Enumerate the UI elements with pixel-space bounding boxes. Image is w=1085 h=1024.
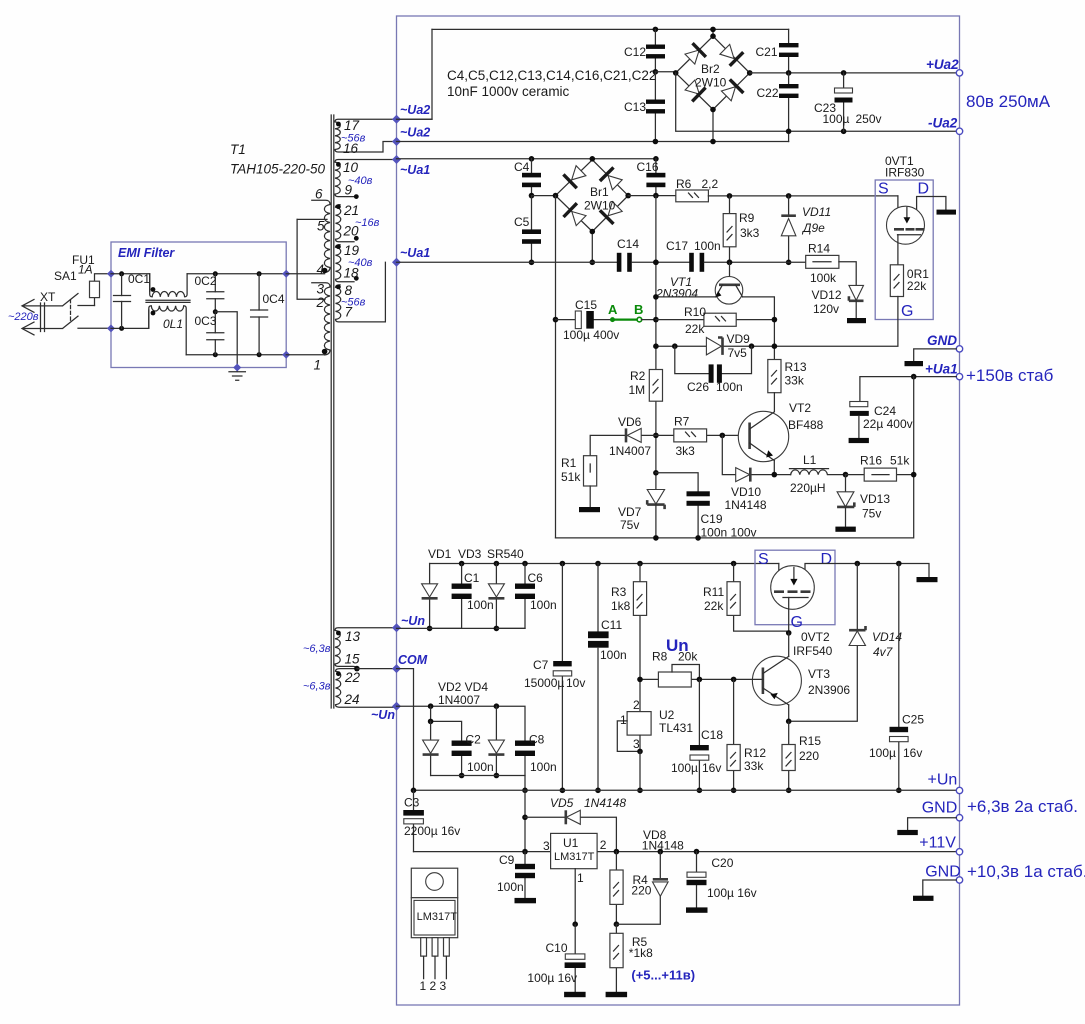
output GND 150v — [956, 346, 962, 352]
svg-text:~6,3в: ~6,3в — [303, 643, 331, 655]
svg-text:D: D — [918, 181, 930, 198]
svg-text:2N3904: 2N3904 — [655, 287, 698, 301]
svg-text:+6,3в 2а стаб.: +6,3в 2а стаб. — [967, 797, 1078, 816]
Br2 diode top-right — [720, 44, 734, 58]
svg-text:VT2: VT2 — [789, 401, 811, 415]
svg-text:+11V: +11V — [919, 835, 956, 852]
svg-text:33k: 33k — [785, 374, 805, 388]
capacitor C23 — [814, 70, 882, 134]
svg-text:R10: R10 — [684, 305, 706, 319]
svg-text:C14: C14 — [617, 237, 639, 251]
svg-text:15000µ: 15000µ — [524, 676, 564, 690]
fuse FU1 1A — [72, 253, 111, 306]
wire Br2 lower frame — [676, 73, 960, 131]
wire COM down — [397, 669, 414, 791]
resistor R2 1M — [629, 369, 663, 401]
svg-text:15: 15 — [345, 652, 361, 667]
resistor R7 3k3 — [656, 415, 749, 459]
svg-text:C11: C11 — [601, 618, 622, 632]
node EMI out top — [282, 270, 290, 278]
svg-text:C9: C9 — [499, 853, 515, 867]
svg-text:100n: 100n — [694, 239, 721, 253]
ground earth symbol — [229, 372, 245, 380]
svg-text:VD3: VD3 — [458, 547, 482, 561]
wire -Ua2 rail from pin16 — [397, 141, 789, 143]
svg-text:*1k8: *1k8 — [629, 946, 653, 960]
svg-text:R2: R2 — [630, 369, 646, 383]
svg-text:~Ua1: ~Ua1 — [400, 246, 430, 260]
IC U1 LM317T — [543, 833, 607, 927]
capacitor C19 100n 100v — [656, 473, 757, 541]
svg-text:10: 10 — [343, 160, 359, 175]
svg-text:3k3: 3k3 — [676, 444, 696, 458]
svg-text:VD12: VD12 — [812, 288, 842, 302]
svg-text:C22: C22 — [757, 86, 779, 100]
wire ~Ua1 upper rail — [397, 158, 656, 160]
svg-text:75v: 75v — [620, 518, 639, 532]
svg-text:220: 220 — [631, 884, 651, 898]
svg-text:220: 220 — [799, 749, 819, 763]
svg-text:2N3906: 2N3906 — [808, 683, 850, 697]
svg-text:C6: C6 — [528, 571, 544, 585]
LM317T package drawing — [411, 868, 457, 993]
svg-text:C18: C18 — [701, 728, 723, 742]
wire ~Ua1 lower rail left — [397, 261, 617, 263]
svg-text:0C1: 0C1 — [128, 272, 150, 286]
wire R6 right to 0VT1 S — [708, 195, 898, 197]
svg-text:+Ua2: +Ua2 — [926, 57, 959, 72]
wire mid junction to earth — [215, 312, 237, 372]
svg-text:U1: U1 — [563, 836, 579, 850]
switch SA1 — [45, 269, 111, 329]
svg-text:Д9е: Д9е — [801, 221, 825, 235]
svg-text:R6: R6 — [676, 177, 692, 191]
wire lower sub rail — [431, 776, 525, 791]
svg-text:100n 100v: 100n 100v — [701, 526, 757, 540]
resistor R14 100k — [806, 242, 839, 286]
svg-text:VD13: VD13 — [860, 492, 890, 506]
svg-text:~220в: ~220в — [8, 311, 39, 323]
node ~Ua1 pin7 — [392, 258, 401, 267]
svg-text:~Ua2: ~Ua2 — [400, 126, 430, 140]
resistor R11 22k — [703, 561, 788, 631]
svg-text:5: 5 — [317, 219, 325, 234]
svg-text:2,2: 2,2 — [702, 177, 719, 191]
svg-text:U2: U2 — [659, 708, 675, 722]
svg-text:VD9: VD9 — [727, 332, 751, 346]
svg-text:A: A — [608, 302, 618, 317]
svg-text:16v: 16v — [903, 746, 922, 760]
capacitor 0C1 — [114, 271, 151, 331]
wire EMI top rail — [111, 274, 150, 292]
svg-text:10v: 10v — [566, 676, 585, 690]
svg-text:2: 2 — [600, 838, 607, 852]
wire pin3 +11V rail — [414, 851, 957, 853]
svg-text:100µ 16v: 100µ 16v — [707, 886, 757, 900]
svg-text:XT: XT — [40, 290, 56, 304]
node EMI box bottom crossing — [233, 364, 241, 372]
svg-text:1N4148: 1N4148 — [584, 796, 626, 810]
svg-text:C26: C26 — [687, 380, 709, 394]
capacitor C26 100n — [675, 346, 752, 394]
svg-text:R1: R1 — [561, 456, 577, 470]
svg-text:C21: C21 — [756, 45, 778, 59]
svg-text:C12: C12 — [624, 45, 646, 59]
svg-text:+Un: +Un — [928, 772, 958, 789]
svg-text:100k: 100k — [810, 271, 837, 285]
svg-text:100µ: 100µ — [869, 746, 896, 760]
svg-text:~Ua1: ~Ua1 — [400, 163, 430, 177]
transformer winding 19-18 — [336, 243, 373, 282]
svg-text:TAH105-220-50: TAH105-220-50 — [230, 162, 326, 177]
capacitor C4 — [514, 156, 541, 196]
svg-text:R7: R7 — [674, 415, 690, 429]
svg-text:0VT2: 0VT2 — [801, 630, 830, 644]
svg-text:1: 1 — [577, 871, 584, 885]
svg-text:100µ 16v: 100µ 16v — [527, 971, 577, 985]
svg-text:0C4: 0C4 — [263, 292, 285, 306]
svg-text:22k: 22k — [907, 279, 927, 293]
svg-text:B: B — [634, 302, 643, 317]
capacitor C21 — [756, 29, 799, 73]
wire primary 5 to 2 link — [297, 219, 325, 299]
capacitor C17 — [666, 239, 721, 272]
node ~Ua2 pin16 — [392, 137, 401, 146]
svg-text:7: 7 — [345, 305, 353, 320]
output +Ua1 — [956, 373, 962, 379]
wire C4C5 to Br1 left vertex — [532, 195, 556, 197]
capacitor C3 2200u 16v — [403, 790, 460, 851]
svg-text:C2: C2 — [466, 733, 482, 747]
svg-text:24: 24 — [344, 692, 360, 707]
diode VD5 1N4148 — [525, 796, 626, 854]
output GND 6.3v — [956, 815, 962, 821]
connector XT mains plug — [22, 290, 56, 335]
wire EMI bottom rail — [111, 310, 149, 328]
transformer winding 13-15 — [303, 628, 397, 669]
zener VD13 75v — [835, 475, 890, 532]
svg-text:2200µ 16v: 2200µ 16v — [404, 824, 460, 838]
svg-text:4v7: 4v7 — [873, 645, 894, 659]
svg-text:80в 250мА: 80в 250мА — [966, 92, 1051, 111]
capacitor C20 100u 16v — [686, 849, 757, 913]
svg-text:19: 19 — [344, 243, 360, 258]
transformer winding 10-9 — [335, 160, 397, 200]
svg-text:G: G — [791, 614, 803, 631]
svg-text:100µ: 100µ — [671, 761, 698, 775]
svg-text:6: 6 — [315, 187, 323, 202]
Br2 diode bottom-right — [721, 87, 735, 101]
svg-text:75v: 75v — [862, 507, 881, 521]
wire EMI to transformer pin4 — [286, 273, 324, 275]
svg-text:10nF 1000v ceramic: 10nF 1000v ceramic — [447, 84, 570, 99]
svg-text:GND: GND — [922, 800, 958, 817]
capacitor C12 — [624, 27, 665, 72]
svg-text:100n: 100n — [497, 880, 524, 894]
svg-text:VD2 VD4: VD2 VD4 — [438, 680, 488, 694]
svg-text:-Ua2: -Ua2 — [928, 116, 958, 131]
svg-text:C25: C25 — [902, 713, 924, 727]
Br2 diode bottom-left — [685, 80, 699, 94]
svg-text:GND: GND — [925, 864, 961, 881]
svg-text:~Un: ~Un — [371, 708, 395, 722]
node COM — [392, 664, 401, 673]
zener VD14 4v7 — [790, 561, 902, 722]
wire top rail — [432, 28, 789, 30]
svg-text:C5: C5 — [514, 215, 530, 229]
svg-text:33k: 33k — [744, 759, 764, 773]
transistor VT2 BF488 — [738, 401, 823, 475]
svg-text:TL431: TL431 — [659, 721, 693, 735]
node EMI out bottom — [282, 351, 290, 359]
capacitor 0C3 — [195, 309, 224, 357]
wire EMI bottom rail right — [186, 354, 286, 356]
svg-text:D: D — [821, 551, 833, 568]
Br1 diode bottom-left — [572, 212, 586, 226]
resistor R8 20k — [637, 650, 763, 688]
transformer primary winding 6-5-4 — [297, 187, 330, 278]
svg-text:0C2: 0C2 — [195, 274, 217, 288]
svg-text:C7: C7 — [533, 658, 549, 672]
diode VD3 SR540 — [458, 547, 524, 631]
transformer primary winding 3-2-1 — [312, 282, 330, 373]
diode VD1 SR540 — [422, 547, 452, 631]
svg-text:1N4007: 1N4007 — [438, 693, 480, 707]
svg-text:VD1: VD1 — [428, 547, 452, 561]
output +Un — [956, 787, 962, 793]
svg-text:R8: R8 — [652, 650, 668, 664]
svg-text:C24: C24 — [874, 404, 896, 418]
wire EMI to transformer pin1 — [286, 354, 324, 356]
wire ~Un rail upper — [397, 627, 526, 629]
svg-text:21: 21 — [343, 203, 359, 218]
svg-text:C15: C15 — [575, 298, 597, 312]
capacitor C13 — [624, 69, 665, 144]
node ~Un pin24 — [392, 702, 401, 711]
svg-text:22k: 22k — [685, 322, 705, 336]
svg-text:R14: R14 — [808, 242, 830, 256]
svg-text:T1: T1 — [230, 142, 246, 157]
IC U2 TL431 — [617, 698, 693, 793]
node A — [610, 317, 615, 322]
svg-text:Br2: Br2 — [701, 62, 720, 76]
resistor R4 220 — [610, 852, 652, 927]
chassis bar D 0VT2 — [917, 577, 938, 582]
capacitor C16 — [637, 156, 666, 196]
wire A-B green link — [614, 319, 637, 321]
output -Ua2 — [956, 128, 962, 134]
svg-text:1: 1 — [620, 713, 627, 727]
resistor R16 51k — [843, 454, 917, 482]
svg-text:Br1: Br1 — [590, 185, 609, 199]
wire rail C17 to R14 — [704, 261, 806, 263]
svg-text:R9: R9 — [739, 211, 755, 225]
svg-text:C20: C20 — [711, 856, 733, 870]
svg-text:20k: 20k — [678, 650, 698, 664]
resistor R9 3k3 — [723, 193, 759, 262]
svg-text:3: 3 — [543, 839, 550, 853]
svg-text:22µ 400v: 22µ 400v — [863, 417, 913, 431]
svg-text:SR540: SR540 — [487, 547, 524, 561]
EMI filter box — [111, 242, 286, 368]
diode VD4 — [488, 706, 504, 778]
svg-text:2: 2 — [633, 698, 640, 712]
svg-text:4: 4 — [317, 262, 325, 277]
diode VD8 1N4148 — [616, 828, 684, 924]
node ~Ua2 pin17 — [392, 115, 401, 124]
resistor R6 2,2 — [676, 177, 719, 202]
svg-text:1k8: 1k8 — [611, 599, 631, 613]
svg-text:S: S — [878, 181, 889, 198]
resistor R1 51k — [561, 456, 600, 513]
svg-text:51k: 51k — [561, 470, 581, 484]
svg-text:120v: 120v — [813, 302, 839, 316]
capacitor C14 — [617, 237, 640, 272]
svg-text:IRF540: IRF540 — [793, 644, 833, 658]
capacitor C15 100u 400v — [553, 298, 620, 342]
wire VD9 row — [656, 345, 775, 347]
svg-text:1A: 1A — [78, 263, 93, 277]
svg-text:220µH: 220µH — [790, 481, 826, 495]
output +11V — [956, 849, 962, 855]
diode VD11 Д9е — [781, 193, 831, 265]
wire ~Un rail lower — [397, 706, 526, 742]
output +Ua2 — [956, 70, 962, 76]
svg-text:100n: 100n — [467, 760, 494, 774]
svg-text:VD11: VD11 — [802, 205, 831, 219]
svg-text:EMI Filter: EMI Filter — [118, 246, 175, 260]
output GND 10.3v — [956, 877, 962, 883]
svg-text:17: 17 — [344, 118, 360, 133]
capacitor 0C4 — [251, 271, 285, 357]
svg-text:18: 18 — [344, 266, 360, 281]
resistor 0R1 22k — [890, 265, 929, 297]
svg-text:C10: C10 — [546, 941, 568, 955]
svg-text:100n: 100n — [600, 648, 627, 662]
svg-text:VD7: VD7 — [618, 505, 642, 519]
svg-text:51k: 51k — [890, 454, 910, 468]
svg-text:R3: R3 — [611, 585, 627, 599]
svg-text:C3: C3 — [404, 796, 420, 810]
svg-text:22k: 22k — [704, 599, 724, 613]
wire 0R1 gate down to VD9 row — [774, 297, 898, 347]
svg-text:1 2 3: 1 2 3 — [420, 979, 447, 993]
svg-text:~Ua2: ~Ua2 — [400, 103, 430, 117]
svg-text:LM317T: LM317T — [554, 851, 595, 863]
resistor R3 1k8 — [611, 561, 647, 712]
svg-text:16: 16 — [343, 141, 359, 156]
node ~Ua1 pin10 — [392, 155, 401, 164]
svg-text:C8: C8 — [529, 733, 545, 747]
svg-text:C4,C5,C12,C13,C14,C16,C21,C22: C4,C5,C12,C13,C14,C16,C21,C22 — [447, 68, 656, 83]
capacitor C7 15000u 10v — [524, 561, 585, 793]
capacitor C1 100n — [430, 561, 494, 629]
MOSFET 0VT1 IRF830 — [875, 154, 956, 320]
capacitor C6 100n — [496, 561, 556, 629]
svg-text:2W10: 2W10 — [584, 199, 616, 213]
transformer winding 17-16 — [335, 118, 432, 156]
wire Br1 left vertex down the left column — [555, 196, 557, 538]
svg-text:3: 3 — [633, 737, 640, 751]
Br1 diode top-left — [572, 166, 586, 180]
wire +Ua2 rail — [750, 72, 960, 74]
svg-text:+Ua1: +Ua1 — [925, 362, 958, 377]
resistor R10 22k — [656, 305, 777, 336]
svg-text:VD5: VD5 — [550, 796, 574, 810]
node B — [637, 317, 642, 322]
capacitor C18 100u 16v — [671, 679, 723, 793]
wire +Un rail — [414, 789, 957, 791]
transistor VT1 2N3904 — [655, 260, 743, 305]
svg-text:7v5: 7v5 — [728, 346, 748, 360]
transformer core — [331, 115, 334, 708]
svg-text:SA1: SA1 — [54, 269, 77, 283]
svg-text:R16: R16 — [860, 454, 882, 468]
main outer blue box — [397, 16, 960, 1005]
zener VD12 120v — [812, 285, 867, 323]
choke 0L1 — [146, 274, 190, 355]
svg-text:2: 2 — [316, 295, 325, 310]
svg-text:100µ 400v: 100µ 400v — [563, 328, 619, 342]
svg-text:100n: 100n — [530, 598, 557, 612]
svg-text:1N4007: 1N4007 — [609, 444, 651, 458]
wire C12 C13 to Br2 left vertex — [655, 71, 675, 73]
svg-text:1M: 1M — [629, 383, 646, 397]
main column center — [655, 196, 657, 491]
svg-text:0L1: 0L1 — [163, 317, 183, 331]
wire pin17 to top rail — [397, 29, 433, 119]
resistor R5 *1k8 — [606, 924, 654, 997]
diode VD10 1N4148 — [722, 435, 790, 512]
bridge Br2 — [673, 27, 753, 145]
wire LV top rail — [430, 563, 779, 565]
capacitor C5 — [514, 193, 541, 265]
transformer winding 21-20 — [336, 203, 380, 242]
svg-text:COM: COM — [398, 653, 428, 667]
node EMI in bottom — [107, 324, 115, 332]
node ~Un pin13 — [392, 623, 401, 632]
svg-text:9: 9 — [345, 183, 353, 198]
capacitor C9 100n — [497, 852, 536, 904]
zener VD9 7v5 — [706, 332, 750, 360]
diode VD2 — [423, 721, 439, 775]
wire VD2 C2 upper link — [431, 706, 462, 742]
svg-text:G: G — [901, 303, 913, 320]
inductor L1 220uH — [790, 453, 846, 495]
svg-text:+10,3в 1а стаб.: +10,3в 1а стаб. — [967, 862, 1085, 881]
svg-text:3k3: 3k3 — [740, 226, 760, 240]
svg-text:VD6: VD6 — [618, 415, 642, 429]
svg-text:~Un: ~Un — [401, 614, 425, 628]
svg-text:1N4148: 1N4148 — [725, 498, 767, 512]
capacitor C2 100n — [452, 733, 494, 779]
diode VD6 1N4007 — [590, 415, 659, 458]
svg-text:S: S — [758, 551, 769, 568]
svg-text:0C3: 0C3 — [195, 314, 217, 328]
wire rail C14 to C17 — [632, 261, 689, 263]
svg-text:C1: C1 — [464, 571, 480, 585]
svg-text:100n: 100n — [530, 760, 557, 774]
svg-text:C16: C16 — [637, 160, 659, 174]
svg-text:LM317T: LM317T — [417, 911, 458, 923]
svg-text:C17: C17 — [666, 239, 688, 253]
svg-text:250v: 250v — [856, 112, 882, 126]
svg-text:+150в стаб: +150в стаб — [966, 366, 1054, 385]
svg-text:R15: R15 — [799, 734, 821, 748]
svg-text:~16в: ~16в — [355, 217, 380, 229]
wire C8 column down — [524, 790, 526, 851]
capacitor C11 100n — [588, 561, 627, 793]
